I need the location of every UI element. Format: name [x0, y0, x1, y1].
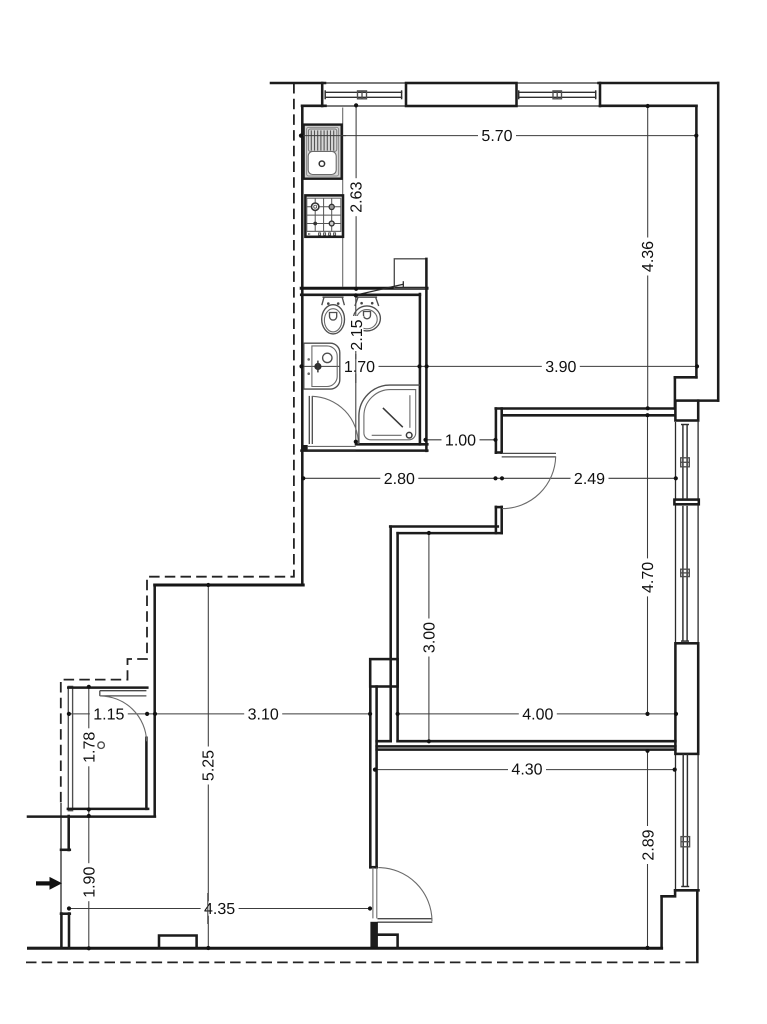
north wall outer face line [271, 83, 718, 106]
dimension label 1.15 [90, 706, 128, 723]
duct shaft next to kitchen [394, 259, 426, 289]
svg-text:2.49: 2.49 [574, 471, 605, 488]
dimension label 3.00 [421, 619, 438, 657]
kitchen sink unit [301, 125, 346, 179]
svg-text:2.63: 2.63 [349, 182, 366, 213]
west wall upper segment [61, 816, 70, 850]
dimension label 1.70 [341, 359, 379, 376]
property boundary dashed line, bottom [26, 961, 697, 963]
bathroom door threshold [308, 446, 356, 449]
dimension label 3.10 [244, 707, 282, 724]
bathroom north wall [301, 294, 420, 297]
svg-text:1.00: 1.00 [445, 432, 476, 449]
svg-text:1.70: 1.70 [344, 359, 375, 376]
dimension label 2.15 [349, 316, 366, 354]
dimension line 4.70 [647, 415, 649, 714]
dimension line 3.00 [428, 533, 430, 741]
svg-text:4.30: 4.30 [511, 762, 542, 779]
bathroom south wall [301, 444, 427, 451]
dimension label 1.00 [442, 432, 480, 449]
hall step wall at middle room [390, 527, 502, 534]
bathroom east wall inner face [419, 294, 422, 444]
east wall pier between rooms [675, 643, 698, 754]
hall west wall [153, 585, 156, 816]
east window Wb glazing [681, 506, 690, 642]
middle room south wall [377, 741, 676, 746]
north wall right corner pier [599, 83, 719, 106]
toilet WC [322, 297, 345, 334]
bidet [353, 297, 380, 331]
south wall left stub [29, 947, 62, 950]
shower [359, 385, 420, 444]
svg-text:2.80: 2.80 [384, 471, 415, 488]
east wall step block [675, 401, 698, 421]
hall north step wall [155, 584, 304, 587]
dimension label 2.49 [571, 471, 609, 488]
svg-text:3.00: 3.00 [421, 622, 438, 653]
dimension line 1.70 / 3.90 [302, 365, 698, 367]
south wall notch 1 [159, 936, 197, 949]
dimension label 2.89 [641, 826, 658, 864]
south wall notch 2 [378, 935, 398, 949]
dimension line 4.35 [69, 908, 370, 910]
dimension end dots [67, 103, 699, 950]
svg-text:4.35: 4.35 [204, 901, 235, 918]
svg-text:5.25: 5.25 [200, 750, 217, 781]
dimension line 4.30 [375, 769, 675, 771]
dimension label 5.70 [478, 128, 516, 145]
dimension line 1.78 / 1.90 [88, 687, 90, 948]
kitchen counter edge line [342, 108, 344, 288]
dimension label 2.80 [380, 471, 418, 488]
dimension label 3.90 [542, 359, 580, 376]
dimension line 1.00 [426, 439, 496, 441]
dimension label 4.30 [508, 762, 546, 779]
svg-text:4.70: 4.70 [640, 562, 657, 593]
kitchen west wall [301, 106, 304, 585]
east wall of living room [675, 83, 718, 409]
bottom room north wall [377, 748, 676, 751]
wall stub left of vestibule [28, 815, 155, 818]
svg-text:5.70: 5.70 [481, 128, 512, 145]
middle room door leaf and swing [502, 453, 556, 508]
west wall outer face line [60, 803, 62, 914]
svg-text:2.15: 2.15 [349, 319, 366, 350]
dimension label 4.00 [519, 707, 557, 724]
vestibule north wall [68, 686, 147, 689]
dimension label 1.78 [81, 728, 98, 766]
window W1 kitchen north [325, 90, 403, 99]
bottom room door threshold [373, 867, 377, 918]
svg-text:4.36: 4.36 [640, 241, 657, 272]
bottom room door leaf and swing [378, 868, 433, 923]
dimension line 2.89 [647, 750, 649, 948]
dimension line 5.70 [301, 135, 696, 137]
bottom room west wall [370, 866, 376, 869]
southeast wall block [662, 890, 699, 962]
svg-text:3.90: 3.90 [545, 359, 576, 376]
middle room west wall [391, 527, 398, 742]
svg-text:1.15: 1.15 [93, 706, 124, 723]
dimension line 4.36 [647, 106, 649, 408]
dimension label 4.70 [640, 558, 657, 596]
vestibule ceiling light point [98, 742, 105, 749]
svg-text:1.78: 1.78 [81, 732, 98, 763]
vestibule east wall vestibule-side face [145, 738, 148, 809]
east window Wa glazing [681, 424, 690, 498]
washbasin [304, 343, 340, 389]
wall below bottom room door [370, 922, 378, 948]
svg-text:1.90: 1.90 [81, 867, 98, 898]
bathroom door leaf and swing [309, 396, 358, 444]
vestibule south wall [68, 808, 148, 811]
north wall left pier [271, 83, 326, 106]
dimension line 4.00 [398, 713, 676, 715]
east window mullion [674, 500, 698, 505]
east window wall faces [676, 421, 699, 891]
dimension line 2.63 [355, 105, 357, 288]
dimension line 1.15 / 3.10 [69, 713, 370, 715]
kitchen stove [305, 195, 343, 236]
svg-text:4.00: 4.00 [522, 707, 553, 724]
svg-text:3.10: 3.10 [248, 707, 279, 724]
property boundary dashed line, left side [61, 83, 294, 803]
dimension line 5.25 [207, 585, 209, 948]
dimension line 2.15 [355, 295, 357, 441]
dimension line 2.80 / 2.49 [303, 477, 676, 479]
west wall lower segment [61, 914, 70, 949]
kitchen south wall [301, 287, 427, 290]
bathroom east wall outer face [425, 259, 428, 451]
dim line overlays crossing labels [208, 351, 356, 924]
entrance arrow [36, 877, 62, 890]
south wall main line [29, 947, 662, 950]
hall east wall below pier [370, 687, 376, 868]
pier column on hall side [370, 659, 397, 686]
dimension label 1.90 [81, 863, 98, 901]
north wall middle pier [406, 83, 517, 106]
window W2 living north [518, 90, 596, 99]
vestibule door leaf and swing [100, 691, 147, 742]
east window Wc glazing [681, 754, 690, 887]
dimension label 4.35 [201, 901, 239, 918]
middle room west door wall [496, 409, 502, 534]
dimension label 2.63 [349, 178, 366, 216]
flue diagonal annotation [357, 281, 403, 295]
dimension label 4.36 [640, 238, 657, 276]
dimension label 5.25 [200, 747, 217, 785]
middle room north wall [496, 409, 675, 416]
vestibule west wall [68, 686, 72, 810]
svg-text:2.89: 2.89 [641, 829, 658, 860]
